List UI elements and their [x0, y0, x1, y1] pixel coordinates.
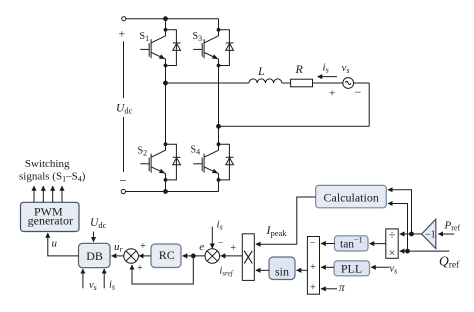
svg-text:+: +: [230, 243, 236, 254]
svg-text:S2: S2: [138, 146, 148, 158]
svg-text:Switching: Switching: [25, 158, 70, 170]
svg-text:DB: DB: [86, 249, 103, 263]
svg-text:−: −: [310, 238, 316, 249]
svg-text:Ipeak: Ipeak: [266, 223, 288, 238]
svg-text:+: +: [329, 88, 335, 100]
svg-text:Udc: Udc: [116, 103, 133, 116]
svg-text:is: is: [323, 62, 329, 75]
svg-text:Qref: Qref: [439, 254, 460, 271]
svg-text:+: +: [119, 27, 126, 41]
svg-text:+: +: [310, 283, 316, 294]
svg-text:generator: generator: [28, 214, 73, 228]
svg-text:is: is: [217, 219, 223, 232]
svg-text:Udc: Udc: [90, 217, 107, 230]
svg-text:÷: ÷: [389, 227, 396, 241]
svg-text:S1: S1: [140, 31, 150, 43]
svg-text:RC: RC: [159, 248, 175, 262]
svg-text:×: ×: [389, 245, 396, 259]
svg-text:−: −: [120, 173, 127, 188]
svg-text:π: π: [339, 282, 346, 294]
svg-text:vs: vs: [390, 264, 398, 276]
svg-text:+: +: [310, 262, 316, 273]
svg-text:e: e: [199, 241, 204, 253]
svg-text:S4: S4: [191, 145, 201, 157]
svg-text:+: +: [140, 241, 146, 252]
svg-text:isref: isref: [220, 266, 234, 278]
svg-text:signals (S1–S4): signals (S1–S4): [19, 170, 86, 183]
svg-text:is: is: [109, 280, 115, 292]
svg-text:−: −: [218, 239, 223, 249]
svg-text:u: u: [52, 238, 58, 250]
svg-text:vs: vs: [342, 62, 350, 75]
svg-text:−1: −1: [425, 230, 436, 241]
svg-text:Pref: Pref: [444, 220, 461, 233]
svg-text:S3: S3: [193, 31, 203, 43]
svg-text:ur: ur: [114, 241, 124, 254]
svg-text:+: +: [137, 263, 143, 274]
svg-text:R: R: [295, 62, 304, 76]
svg-text:sin: sin: [275, 264, 289, 278]
svg-text:PLL: PLL: [341, 261, 362, 275]
svg-text:−: −: [355, 85, 362, 99]
svg-text:Calculation: Calculation: [324, 191, 379, 205]
svg-text:L: L: [257, 64, 265, 78]
svg-text:vs: vs: [89, 280, 97, 292]
